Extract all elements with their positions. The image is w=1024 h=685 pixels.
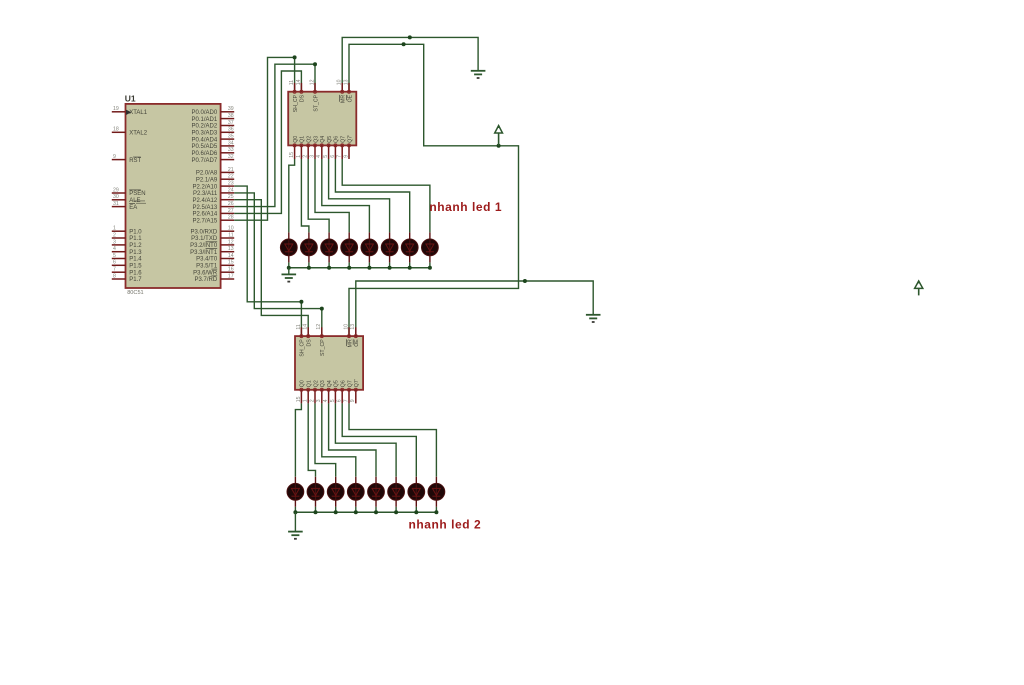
svg-text:P2.2/A10: P2.2/A10: [193, 184, 218, 190]
svg-text:P1.5: P1.5: [129, 264, 142, 270]
wire U3 Q6 to LED row2 #7: [342, 403, 416, 476]
svg-text:3: 3: [113, 239, 116, 245]
svg-text:26: 26: [228, 201, 234, 207]
wire U1 P2.5 to U2 ST_CP: [234, 64, 315, 206]
svg-text:4: 4: [323, 399, 329, 402]
svg-text:Q2: Q2: [307, 136, 313, 143]
wire U2 Q3 to LED row1 #4: [315, 159, 349, 232]
ground (top right): [471, 71, 486, 78]
LED row1 #8: [422, 232, 439, 262]
svg-text:36: 36: [228, 127, 234, 133]
svg-text:SH_CP: SH_CP: [293, 94, 299, 112]
svg-text:Q2: Q2: [313, 380, 319, 387]
wire U3 Q2 to LED row2 #3: [315, 403, 336, 476]
LED row2 #8: [428, 477, 445, 507]
svg-text:15: 15: [296, 396, 302, 402]
svg-text:22: 22: [228, 174, 234, 180]
svg-text:25: 25: [228, 194, 234, 200]
LED row2 #1: [287, 477, 304, 507]
U2 74HC595 (upper) top pin rings: [293, 90, 350, 93]
wire U2 Q7 to LED row1 #8: [342, 159, 430, 232]
wire U2 Q2 to LED row1 #3: [308, 159, 329, 232]
svg-text:4: 4: [113, 246, 116, 252]
LED row2 #7: [408, 477, 425, 507]
svg-text:1: 1: [296, 155, 302, 158]
LED row2 #6: [388, 477, 405, 507]
svg-text:24: 24: [228, 187, 234, 193]
svg-text:16: 16: [228, 267, 234, 273]
svg-text:P3.0/RXD: P3.0/RXD: [191, 229, 218, 235]
svg-text:Q0: Q0: [300, 380, 306, 387]
svg-text:Q5: Q5: [327, 136, 333, 143]
svg-text:P2.1/A9: P2.1/A9: [196, 177, 218, 183]
U3 74HC595 (lower) top pin numbers 11 14 12 10 13: [296, 324, 356, 330]
svg-text:Q1: Q1: [307, 380, 313, 387]
LED row1 #6: [381, 232, 398, 262]
RST label overline detail: [133, 156, 141, 158]
svg-text:12: 12: [228, 239, 234, 245]
LED row 2 bus junctions: [293, 510, 438, 514]
wire U3 Q3 to LED row2 #4: [322, 403, 356, 476]
svg-text:P2.0/A8: P2.0/A8: [196, 171, 218, 177]
ground (LED row 2): [288, 532, 303, 539]
wire U2 Q4 to LED row1 #5: [322, 159, 370, 232]
svg-text:Q6: Q6: [334, 136, 340, 143]
U2 74HC595 (upper) top pin names SH_CP DS ST_CP MR OE: [293, 94, 353, 112]
svg-text:9: 9: [113, 154, 116, 160]
svg-text:Q3: Q3: [313, 136, 319, 143]
U3 74HC595 (lower) bottom pin stubs Q0-Q7 and Q7': [301, 390, 355, 404]
svg-text:2: 2: [309, 399, 315, 402]
svg-text:6: 6: [113, 260, 116, 266]
svg-text:P2.7/A15: P2.7/A15: [193, 218, 218, 224]
svg-text:Q0: Q0: [293, 136, 299, 143]
LED row2 #3: [327, 477, 344, 507]
LED row2 #4: [347, 477, 364, 507]
LED row 2 cathode bus wire: [295, 511, 436, 513]
svg-text:7: 7: [343, 399, 349, 402]
svg-text:12: 12: [309, 79, 315, 85]
svg-text:13: 13: [343, 79, 349, 85]
U1 left pin numbers: [113, 106, 119, 279]
svg-text:14: 14: [228, 253, 234, 259]
U1 XTAL1 clock input arrow: [126, 110, 131, 115]
U2 74HC595 (upper) bottom pin names Q0..Q7 Q7': [293, 135, 353, 143]
LED row1 #2: [301, 232, 318, 262]
svg-text:P3.7/RD: P3.7/RD: [195, 277, 218, 283]
svg-text:DS: DS: [300, 94, 306, 102]
U3 74HC595 (lower) top pin names SH_CP DS ST_CP MR OE: [300, 339, 360, 357]
svg-text:28: 28: [228, 215, 234, 221]
svg-text:15: 15: [289, 152, 295, 158]
wire U3 Q5 to LED row2 #6: [335, 403, 396, 476]
svg-text:38: 38: [228, 113, 234, 119]
LED row 1 bus drop wires: [289, 262, 430, 267]
svg-text:P0.4/AD4: P0.4/AD4: [192, 137, 218, 143]
svg-text:nhanh led 1: nhanh led 1: [429, 200, 502, 214]
svg-text:P2.5/A13: P2.5/A13: [193, 205, 218, 211]
svg-text:P0.3/AD3: P0.3/AD3: [192, 131, 218, 137]
ground (LED row 1): [282, 274, 297, 281]
svg-text:MR: MR: [347, 339, 353, 347]
wire U3 OE to ground: [356, 281, 593, 336]
svg-text:3: 3: [316, 399, 322, 402]
svg-text:P0.7/AD7: P0.7/AD7: [192, 158, 218, 164]
svg-text:13: 13: [350, 324, 356, 330]
wire U3 Q0 to LED row2 #1: [295, 403, 301, 476]
svg-text:Q4: Q4: [327, 380, 333, 387]
svg-text:P0.1/AD1: P0.1/AD1: [192, 117, 218, 123]
wire U1 P2.4 to U3 DS: [234, 200, 308, 336]
ground (middle right): [586, 315, 601, 322]
svg-text:35: 35: [228, 134, 234, 140]
svg-text:XTAL2: XTAL2: [129, 131, 148, 137]
U2 74HC595 (upper) bottom pin rings: [293, 144, 350, 147]
LED row2 #2: [307, 477, 324, 507]
svg-text:P3.1/TXD: P3.1/TXD: [191, 236, 218, 242]
svg-text:PSEN: PSEN: [129, 191, 145, 197]
svg-text:10: 10: [337, 79, 343, 85]
U3 74HC595 (lower) bottom pin names Q0..Q7 Q7': [300, 379, 360, 387]
svg-text:2: 2: [113, 232, 116, 238]
svg-text:7: 7: [337, 155, 343, 158]
svg-text:12: 12: [316, 324, 322, 330]
svg-text:31: 31: [113, 201, 119, 207]
svg-text:9: 9: [350, 399, 356, 402]
wire U1 P2.6 to U2 DS: [234, 71, 301, 213]
svg-text:P3.4/T0: P3.4/T0: [196, 257, 218, 263]
U3 74HC595 (lower) bottom pin numbers 15 1 2 3 4 5 6 7 9: [296, 396, 356, 402]
wire U3 Q4 to LED row2 #5: [329, 403, 376, 476]
svg-text:P0.0/AD0: P0.0/AD0: [192, 110, 218, 116]
svg-text:P1.1: P1.1: [129, 236, 142, 242]
svg-text:P1.0: P1.0: [129, 229, 142, 235]
svg-text:P3.3/INT1: P3.3/INT1: [190, 250, 218, 256]
U1 left pin names: [129, 110, 148, 283]
svg-text:nhanh led 2: nhanh led 2: [409, 518, 482, 532]
svg-text:P2.4/A12: P2.4/A12: [193, 198, 218, 204]
svg-text:P2.6/A14: P2.6/A14: [193, 212, 218, 218]
svg-text:23: 23: [228, 181, 234, 187]
LED row1 #3: [321, 232, 338, 262]
svg-text:Q1: Q1: [300, 136, 306, 143]
svg-text:6: 6: [330, 155, 336, 158]
U2 74HC595 (upper) bottom pin stubs Q0-Q7 and Q7': [295, 145, 349, 159]
wire U2 Q0 to LED row1 #1: [289, 159, 295, 232]
svg-text:3: 3: [309, 155, 315, 158]
LED row1 #5: [361, 232, 378, 262]
wire U2 Q5 to LED row1 #6: [329, 159, 390, 232]
svg-text:U1: U1: [125, 93, 136, 103]
svg-text:MR: MR: [341, 95, 347, 103]
svg-text:Q7: Q7: [341, 136, 347, 143]
svg-text:OE: OE: [347, 94, 353, 102]
junction on U3 OE net: [523, 279, 527, 283]
power VCC arrow (upper): [495, 124, 503, 146]
junction at U3 SH_CP: [299, 300, 303, 304]
svg-text:5: 5: [113, 253, 116, 259]
svg-text:11: 11: [289, 80, 295, 85]
LED row 1 bus junctions: [287, 266, 432, 270]
svg-text:1: 1: [303, 399, 309, 402]
svg-text:11: 11: [296, 324, 302, 329]
U1 right pin names: [190, 110, 218, 283]
svg-text:ST_CP: ST_CP: [320, 339, 326, 356]
svg-text:Q7': Q7': [354, 379, 360, 387]
ALE /PROG smudge detail: [135, 200, 146, 202]
U3 74HC595 (lower) bottom pin rings: [300, 388, 357, 391]
svg-text:P1.6: P1.6: [129, 270, 142, 276]
wire bus row2 to ground: [294, 512, 296, 531]
svg-text:P1.7: P1.7: [129, 277, 142, 283]
junction at U3 ST_CP: [320, 307, 324, 311]
svg-text:P3.2/INT0: P3.2/INT0: [190, 243, 218, 249]
shift register U2 74HC595 (upper) body: [288, 92, 356, 146]
svg-text:14: 14: [303, 324, 309, 330]
wire U1 P2.2 to U3 SH_CP: [234, 186, 301, 336]
svg-text:Q6: Q6: [341, 380, 347, 387]
svg-text:11: 11: [228, 232, 233, 238]
svg-text:P0.6/AD6: P0.6/AD6: [192, 151, 218, 157]
EA /VPP smudge detail: [136, 202, 146, 204]
svg-text:RST: RST: [129, 158, 141, 164]
U2 74HC595 (upper) bottom pin numbers 15 1 2 3 4 5 6 7 9: [289, 152, 349, 158]
svg-text:34: 34: [228, 140, 234, 146]
svg-text:19: 19: [113, 106, 119, 112]
junction on U2 MR net: [408, 35, 412, 39]
svg-text:18: 18: [113, 127, 119, 133]
junction at VCC arrow tap: [497, 144, 501, 148]
U3 74HC595 (lower) top pin stubs: [301, 327, 355, 336]
svg-text:7: 7: [113, 267, 116, 273]
wire U2 OE / VCC / U3 MR net: [349, 44, 519, 336]
svg-text:13: 13: [228, 246, 234, 252]
U1 left pin stubs: [112, 112, 126, 279]
svg-text:1: 1: [113, 226, 116, 232]
wire U2 Q6 to LED row1 #7: [335, 159, 409, 232]
U2 74HC595 (upper) top pin stubs: [295, 83, 349, 92]
svg-text:17: 17: [228, 273, 234, 279]
svg-text:ST_CP: ST_CP: [313, 94, 319, 111]
svg-text:8: 8: [113, 273, 116, 279]
svg-text:P1.3: P1.3: [129, 250, 142, 256]
wire U2 Q1 to LED row1 #2: [301, 159, 309, 232]
svg-text:4: 4: [316, 155, 322, 158]
svg-text:6: 6: [337, 399, 343, 402]
junction on U2 OE net: [402, 42, 406, 46]
svg-text:Q3: Q3: [320, 380, 326, 387]
svg-text:Q7: Q7: [347, 380, 353, 387]
svg-text:P3.6/WR: P3.6/WR: [193, 270, 218, 276]
svg-text:EA: EA: [129, 205, 137, 211]
svg-text:29: 29: [113, 187, 119, 193]
svg-text:10: 10: [228, 226, 234, 232]
U3 74HC595 (lower) top pin rings: [300, 335, 357, 338]
svg-text:Q7': Q7': [347, 135, 353, 143]
power VCC arrow far right: [915, 280, 923, 296]
microcontroller U1 80C51 body: [126, 104, 221, 288]
svg-text:P1.2: P1.2: [129, 243, 142, 249]
svg-text:OE: OE: [354, 339, 360, 347]
U1 right pin stubs P0/P2/P3: [221, 112, 235, 279]
svg-text:39: 39: [228, 106, 234, 112]
svg-text:10: 10: [343, 324, 349, 330]
svg-text:Q4: Q4: [320, 136, 326, 143]
svg-text:30: 30: [113, 194, 119, 200]
LED row1 #4: [341, 232, 358, 262]
svg-text:14: 14: [296, 79, 302, 85]
U1 right pin numbers: [228, 106, 234, 279]
svg-text:37: 37: [228, 120, 234, 126]
junction at U2 SH_CP: [293, 55, 297, 59]
wire U3 Q1 to LED row2 #2: [308, 403, 315, 476]
LED row 1 cathode bus wire: [289, 267, 430, 269]
wire U1 P2.3 to U3 ST_CP: [234, 193, 322, 336]
LED row 2 bus drop wires: [295, 507, 436, 512]
svg-text:P0.5/AD5: P0.5/AD5: [192, 144, 218, 150]
wire U3 Q7 to LED row2 #8: [349, 403, 436, 476]
svg-text:2: 2: [303, 155, 309, 158]
svg-text:SH_CP: SH_CP: [300, 339, 306, 357]
junction at U2 ST_CP: [313, 62, 317, 66]
svg-text:DS: DS: [307, 339, 313, 347]
LED row1 #7: [401, 232, 418, 262]
shift register U3 74HC595 (lower) body: [295, 336, 363, 390]
svg-text:5: 5: [330, 399, 336, 402]
svg-text:P0.2/AD2: P0.2/AD2: [192, 124, 218, 130]
LED row2 #5: [368, 477, 385, 507]
svg-text:XTAL1: XTAL1: [129, 110, 148, 116]
svg-text:21: 21: [228, 167, 234, 173]
wire bus row1 to ground: [288, 268, 290, 274]
wire U2 MR to ground: [342, 37, 478, 91]
svg-text:9: 9: [343, 155, 349, 158]
wire U1 P2.7 to U2 SH_CP: [234, 57, 294, 220]
svg-text:27: 27: [228, 208, 234, 214]
LED row1 #1: [280, 232, 297, 262]
svg-text:5: 5: [323, 155, 329, 158]
svg-text:80C51: 80C51: [127, 290, 143, 296]
svg-text:32: 32: [228, 154, 234, 160]
U2 74HC595 (upper) top pin numbers 11 14 12 10 13: [289, 79, 349, 85]
svg-text:P1.4: P1.4: [129, 257, 142, 263]
svg-text:Q5: Q5: [334, 380, 340, 387]
svg-text:33: 33: [228, 147, 234, 153]
svg-text:P2.3/A11: P2.3/A11: [193, 191, 218, 197]
svg-text:P3.5/T1: P3.5/T1: [196, 264, 218, 270]
svg-text:15: 15: [228, 260, 234, 266]
